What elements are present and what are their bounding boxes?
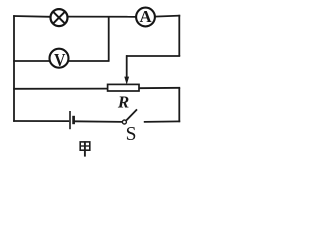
wire voltmeter right [68,60,110,62]
wire battery to switch [74,120,122,123]
wire slider horizontal [126,55,180,57]
wire switch to bottom-right corner [144,120,180,123]
svg-text:A: A [140,7,152,26]
svg-text:R: R [117,92,129,111]
battery cell: short thick plate [72,116,75,124]
ammeter A [136,7,155,27]
wire branch vertical to voltmeter [108,16,110,61]
wire rheostat left [13,88,109,90]
voltmeter V [50,49,69,70]
rheostat slider arrow [124,55,129,85]
switch S: pivot circle [122,120,126,124]
battery cell: long plate [69,111,71,129]
rheostat body [108,84,139,91]
wire lamp to ammeter [67,16,137,18]
wire bottom-left to battery [13,120,69,122]
label 甲 (drawn strokes) [80,141,90,156]
svg-text:V: V [54,50,65,70]
wire left vertical [13,15,15,122]
svg-text:S: S [126,124,137,145]
wire right vertical lower [178,88,180,122]
wire rheostat right [138,87,180,89]
switch S: blade [126,109,137,120]
wire top-left horizontal [13,15,51,18]
wire ammeter to top-right corner [155,16,181,17]
lamp (circle with X) [51,9,68,26]
wire right vertical upper [178,15,180,56]
wire voltmeter left [13,60,50,62]
